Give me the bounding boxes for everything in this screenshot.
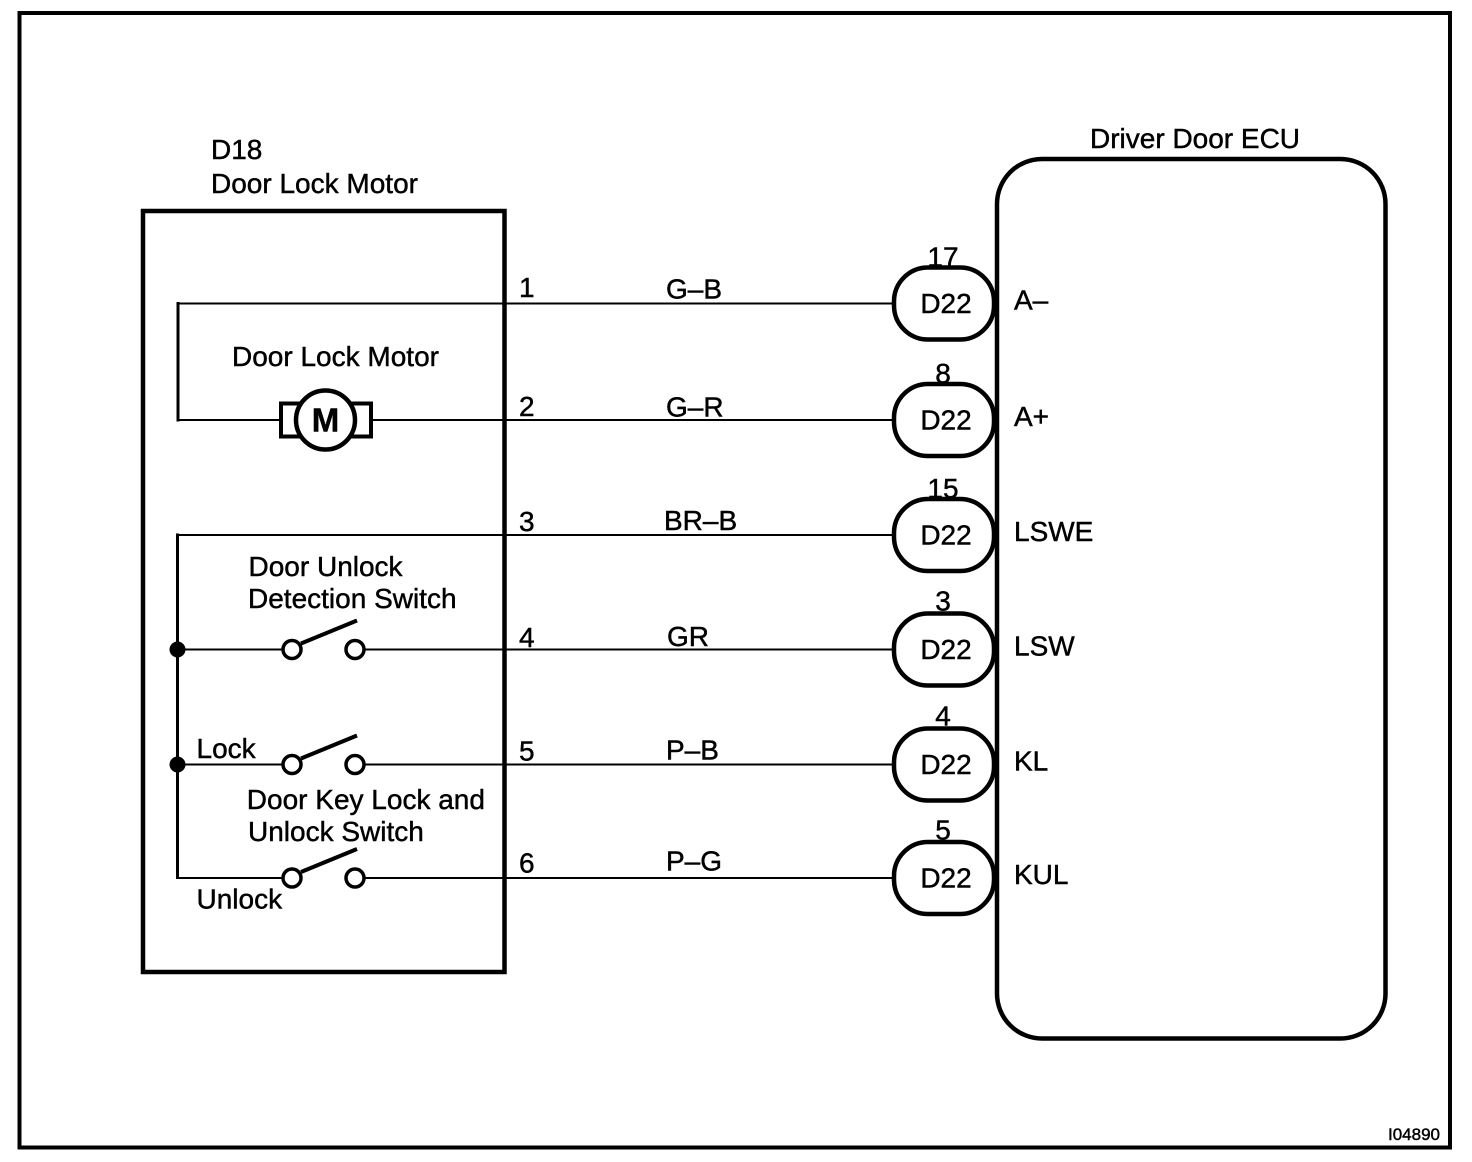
wire pin2 G-R: [178, 419, 896, 421]
svg-text:Door Key Lock and: Door Key Lock and: [247, 784, 485, 815]
switch S2 right contact: [346, 756, 364, 774]
svg-text:G–B: G–B: [666, 274, 722, 305]
junction dot wire5: [170, 757, 186, 773]
svg-text:D22: D22: [920, 288, 971, 319]
svg-text:6: 6: [519, 848, 535, 879]
svg-text:Lock: Lock: [197, 733, 257, 764]
switch S2 (key lock) left contact: [283, 756, 301, 774]
svg-text:3: 3: [519, 506, 535, 537]
svg-text:D22: D22: [920, 749, 971, 780]
svg-text:Door Unlock: Door Unlock: [249, 551, 404, 582]
svg-text:P–G: P–G: [666, 846, 722, 877]
switch S3 blade: [301, 849, 357, 872]
switch S1 right contact: [346, 641, 364, 659]
svg-text:Detection Switch: Detection Switch: [248, 583, 457, 614]
motor M1 right terminal tab: [351, 404, 371, 437]
ECU box Driver Door ECU: [997, 159, 1386, 1039]
junction dot wire4: [170, 642, 186, 658]
wire pin3 BR-B: [178, 534, 896, 536]
svg-text:D18: D18: [211, 134, 262, 165]
wire switch spine vertical: [176, 534, 179, 880]
svg-text:Unlock Switch: Unlock Switch: [248, 816, 424, 847]
wire pin6 right segment P-G: [362, 877, 896, 879]
motor M1 left terminal tab: [281, 404, 301, 437]
wire pin6 left segment: [176, 877, 285, 879]
switch S3 (key unlock) left contact: [283, 869, 301, 887]
switch S1 (door unlock detection) left contact: [283, 641, 301, 659]
wire pin4 right segment GR: [362, 649, 896, 651]
svg-text:GR: GR: [667, 621, 709, 652]
svg-text:BR–B: BR–B: [664, 505, 737, 536]
wire pin5 right segment P-B: [362, 764, 896, 766]
svg-text:LSWE: LSWE: [1014, 516, 1093, 547]
wire pin5 left segment: [176, 764, 285, 766]
svg-text:Unlock: Unlock: [197, 884, 284, 915]
svg-text:M: M: [312, 402, 340, 439]
wire motor loop vertical: [177, 302, 180, 422]
svg-text:D22: D22: [920, 405, 971, 436]
switch S3 right contact: [346, 869, 364, 887]
svg-text:I04890: I04890: [1388, 1125, 1440, 1144]
wire pin1 G-B: [178, 303, 896, 305]
svg-text:1: 1: [519, 272, 535, 303]
svg-text:Driver Door ECU: Driver Door ECU: [1090, 123, 1300, 154]
connector D18 outline box: [143, 211, 505, 972]
switch S2 blade: [301, 736, 357, 759]
svg-text:Door Lock Motor: Door Lock Motor: [211, 168, 418, 199]
switch S1 blade: [301, 621, 357, 644]
svg-text:A–: A–: [1014, 285, 1049, 316]
svg-text:D22: D22: [920, 520, 971, 551]
svg-text:KUL: KUL: [1014, 859, 1068, 890]
svg-text:D22: D22: [920, 634, 971, 665]
svg-text:A+: A+: [1014, 401, 1049, 432]
svg-text:2: 2: [519, 391, 535, 422]
svg-text:KL: KL: [1014, 746, 1048, 777]
motor M1 body: [296, 391, 355, 450]
svg-text:P–B: P–B: [666, 735, 719, 766]
svg-text:5: 5: [519, 736, 535, 767]
svg-text:4: 4: [519, 622, 535, 653]
svg-text:LSW: LSW: [1014, 631, 1075, 662]
svg-text:G–R: G–R: [666, 392, 724, 423]
wire pin4 left segment: [176, 649, 285, 651]
svg-text:Door Lock Motor: Door Lock Motor: [232, 341, 439, 372]
svg-text:D22: D22: [920, 863, 971, 894]
